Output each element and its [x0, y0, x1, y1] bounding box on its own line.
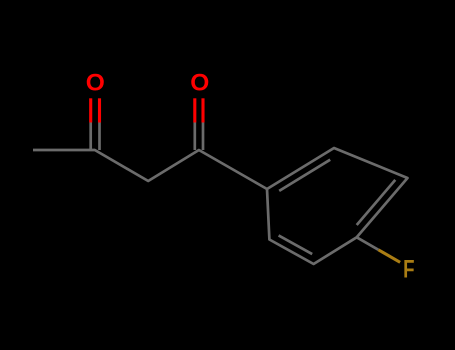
svg-text:F: F — [403, 256, 414, 284]
svg-text:O: O — [86, 69, 105, 96]
svg-text:O: O — [190, 69, 209, 96]
